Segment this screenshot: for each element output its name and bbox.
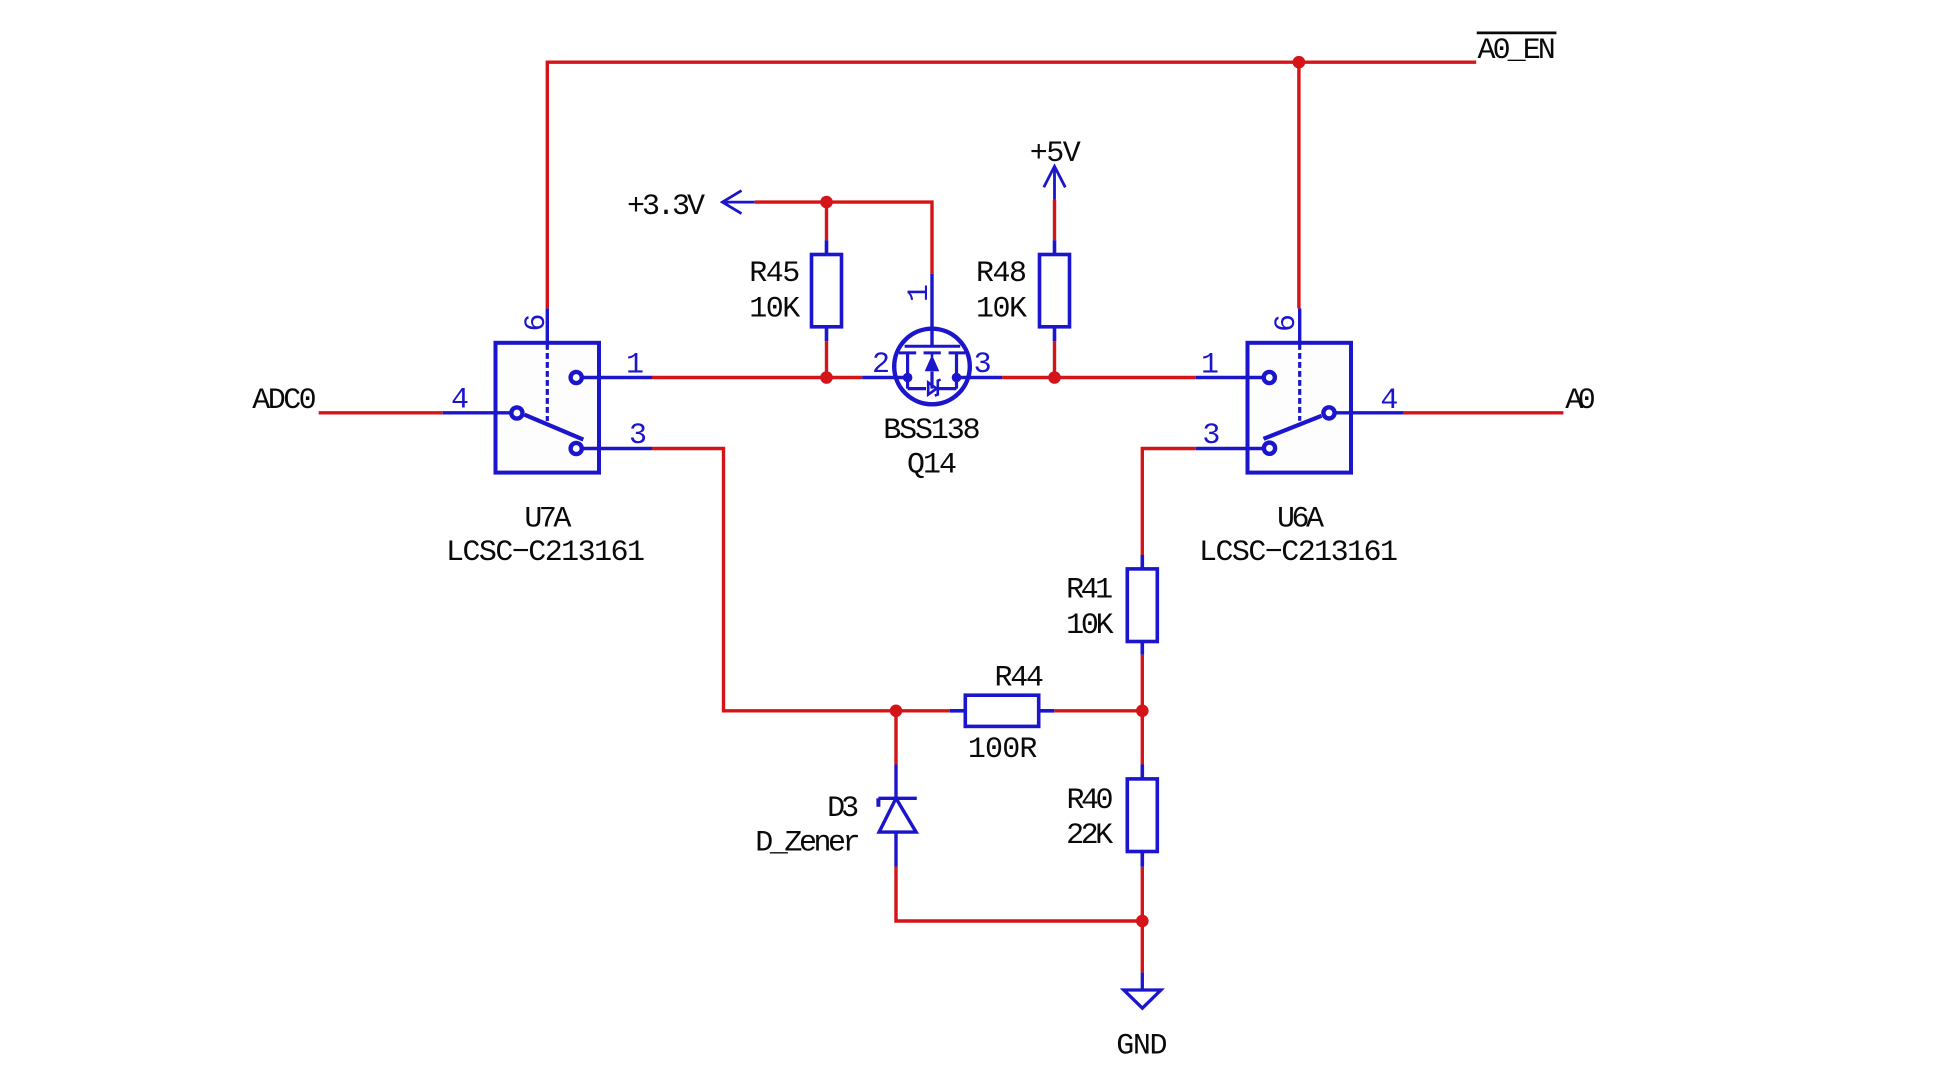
wire to GND [1141,921,1144,973]
svg-text:3: 3 [629,419,647,453]
svg-text:R41: R41 [1066,574,1113,608]
power symbol +3.3V [722,191,754,214]
svg-text:100R: 100R [968,733,1038,767]
wire U7A pin3 down-right [652,449,896,711]
svg-text:ADC0: ADC0 [252,384,316,418]
junction D3 / R44 [890,705,903,718]
junction +3.3V / R45 [820,196,833,209]
Q14 right leg [955,353,958,389]
wire ADC0 to U7A pin 4 [319,411,443,414]
U7A internal dashed line [546,344,549,421]
junction R45 / pin1 net [820,371,833,384]
Q14 pin 3 stub [957,376,1003,379]
wire R40 top [1141,711,1144,765]
U7A pin 3 [583,447,652,450]
U7A pin 4 [443,411,511,414]
wire R44 right [1054,709,1142,712]
svg-text:22K: 22K [1066,819,1113,853]
svg-text:1: 1 [1201,349,1219,383]
U6A switch lever [1264,416,1322,439]
wire R40 bottom [1141,867,1144,921]
svg-text:D3: D3 [827,792,859,826]
svg-text:R44: R44 [995,662,1044,696]
svg-text:1: 1 [903,284,937,302]
svg-text:U7A: U7A [524,503,571,537]
diode D3 zener [878,765,916,867]
Q14 left leg [906,353,909,389]
Q14 pin 2 stub [862,376,907,379]
wire D3 top [894,711,897,765]
wire U6A pin3 down-left [1142,449,1196,556]
Q14 substrate arrow [925,353,940,389]
wire R41 bottom [1141,655,1144,711]
Q14 body diode [928,380,940,396]
svg-text:2: 2 [872,348,890,382]
Q14 bottom bar [908,387,957,390]
svg-text:A0: A0 [1565,384,1596,418]
resistor R44 [950,695,1055,726]
junction R48 / pin1 net [1048,371,1061,384]
svg-text:R40: R40 [1067,784,1114,818]
switch U6A body [1248,343,1352,473]
svg-text:LCSC−C213161: LCSC−C213161 [446,536,645,570]
wire R45 top [825,202,828,240]
wire A0_EN top horizontal [547,61,1476,64]
wire U7A pin1 to transistor [652,376,862,379]
resistor R48 [1040,240,1070,341]
svg-text:1: 1 [626,349,644,383]
U6A pin 1 [1196,376,1263,379]
svg-text:A0_EN: A0_EN [1478,34,1556,68]
wire left vertical to U7A pin 6 [546,61,549,309]
svg-text:BSS138: BSS138 [883,414,980,448]
power symbol +5V [1044,166,1066,200]
svg-text:Q14: Q14 [907,449,957,483]
svg-text:10K: 10K [976,292,1027,326]
U7A pin 6 stub [546,308,549,342]
svg-text:6: 6 [1270,314,1304,332]
label A0_EN [1477,33,1557,68]
junction A0_EN/U6A [1293,56,1306,69]
resistor R45 [812,240,842,341]
transistor Q14 circle [894,329,970,405]
svg-text:GND: GND [1116,1030,1167,1064]
U6A internal dashed line [1298,344,1301,421]
svg-text:4: 4 [1380,384,1398,418]
wire R45 bottom [825,341,828,377]
svg-text:D_Zener: D_Zener [755,827,860,861]
wire D3 bottom to GND rail [896,867,1142,922]
Q14 gate pin stub [930,274,933,346]
wire right vertical to U6A pin 6 [1297,62,1300,308]
U7A pin 1 [583,376,652,379]
svg-text:10K: 10K [749,292,800,326]
junction R41/R44/R40 [1136,705,1149,718]
svg-text:3: 3 [974,348,992,382]
svg-text:R45: R45 [749,257,800,291]
wire U6A pin 4 to A0 [1404,411,1564,414]
wire R44 left [896,709,950,712]
svg-text:+5V: +5V [1030,137,1081,171]
svg-text:LCSC−C213161: LCSC−C213161 [1199,536,1398,570]
U6A pin 4 [1335,411,1404,414]
wire R48 bottom [1053,341,1056,377]
U7A switch lever [525,415,584,440]
junction GND rail [1136,915,1149,928]
svg-text:3: 3 [1202,419,1220,453]
Q14 drain junction dot [952,373,962,383]
svg-text:4: 4 [451,383,469,417]
Q14 gate bar [905,345,961,348]
wire +3.3V rail [755,202,932,274]
U6A pin 6 stub [1298,308,1301,342]
svg-text:+3.3V: +3.3V [627,190,705,224]
svg-text:R48: R48 [976,257,1027,291]
resistor R40 [1127,765,1157,867]
ground [1124,973,1161,1009]
switch U7A body [496,343,600,473]
resistor R41 [1127,555,1157,655]
svg-text:10K: 10K [1066,609,1114,643]
Q14 source junction dot [903,373,913,383]
Q14 channel segments [899,351,965,354]
U6A pin 3 [1196,447,1263,450]
svg-text:6: 6 [520,313,554,331]
wire +5V to R48 [1053,200,1056,240]
svg-text:U6A: U6A [1277,503,1324,537]
wire transistor to U6A pin1 [1002,376,1196,379]
